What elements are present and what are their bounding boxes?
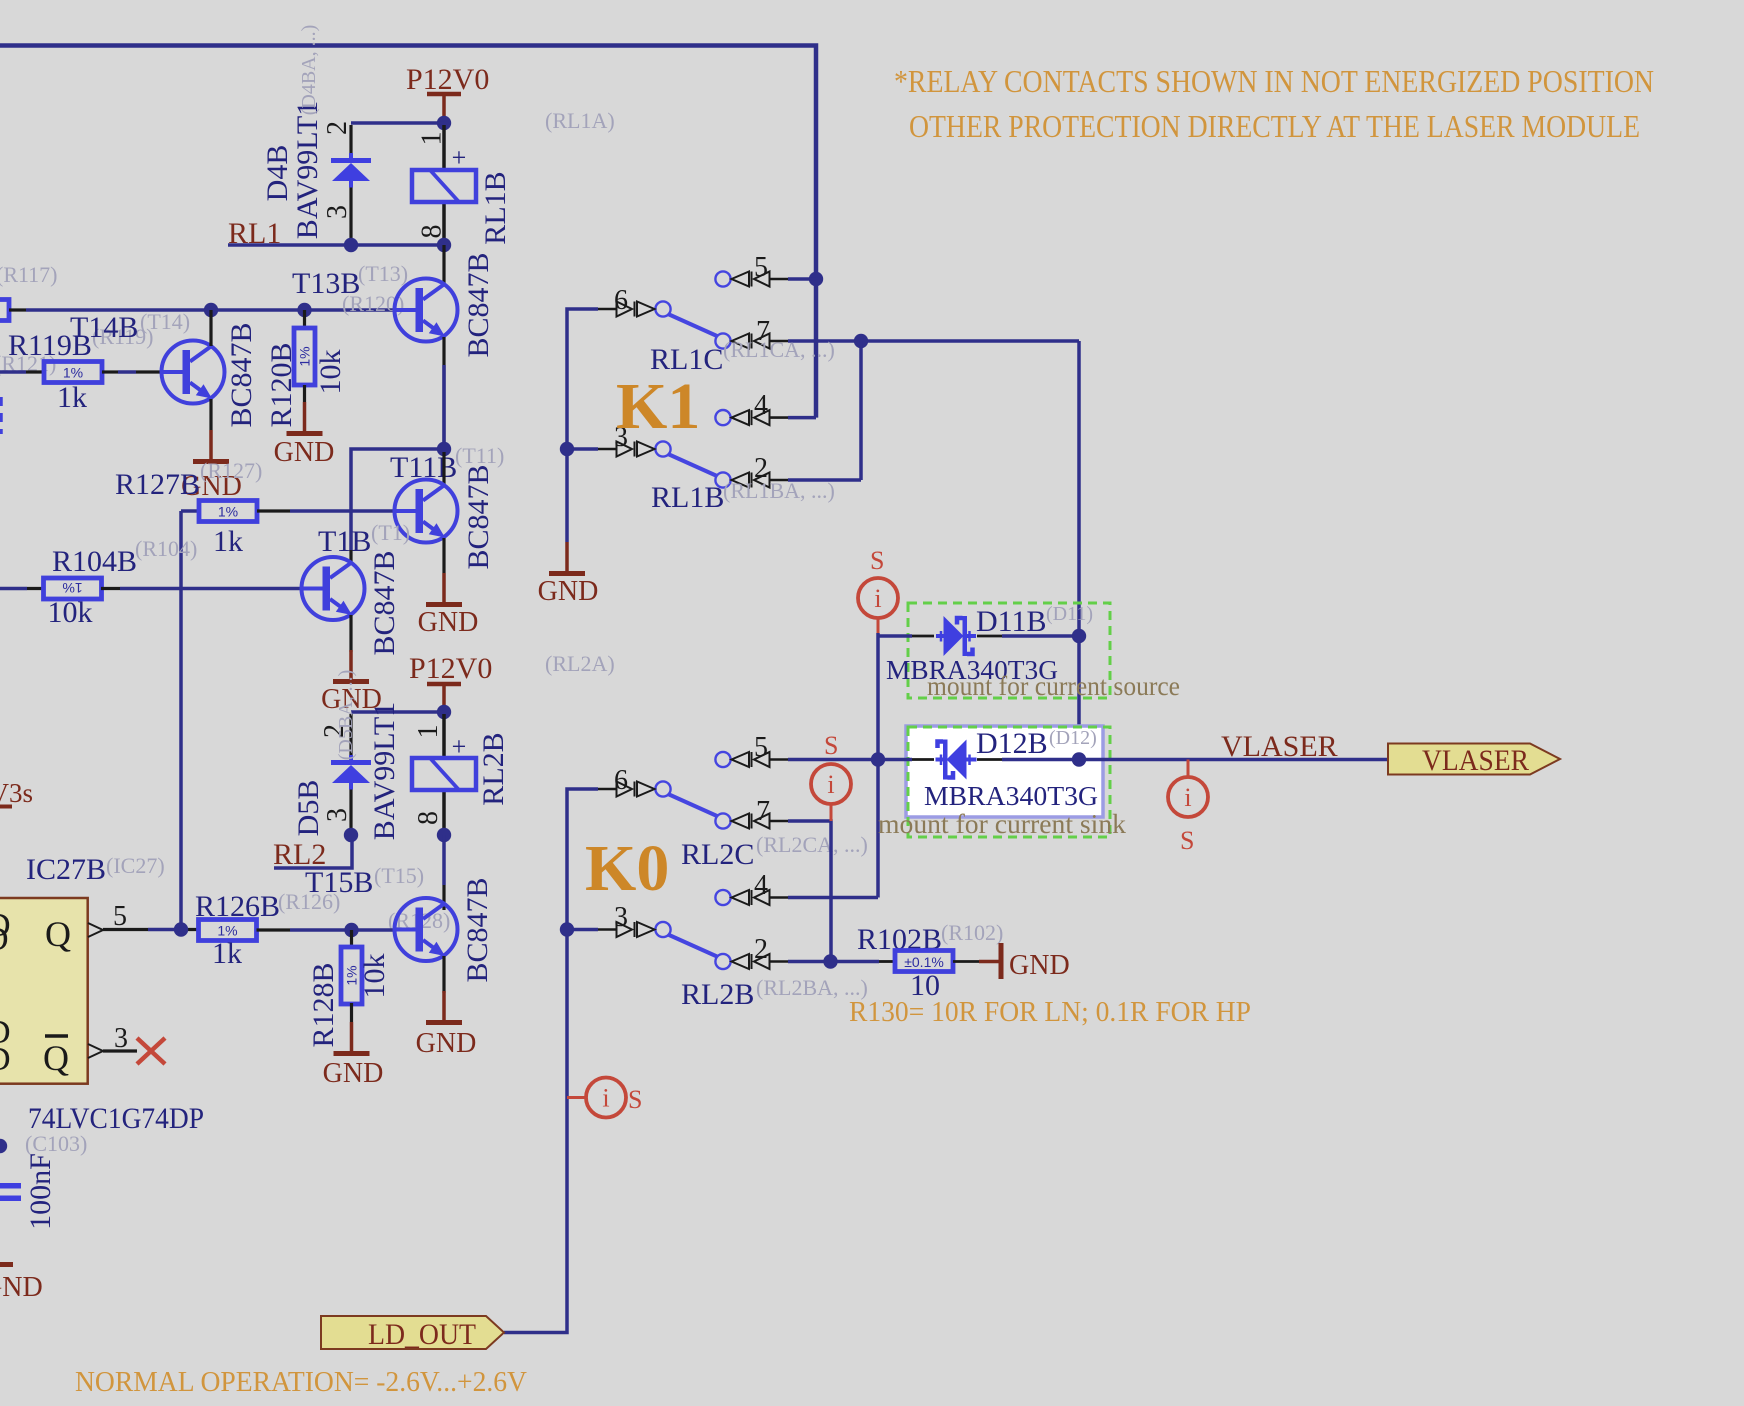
wire K1 contact3 stub <box>567 447 598 451</box>
svg-text:10k: 10k <box>314 350 347 395</box>
resistor R120B vertical <box>303 310 306 328</box>
svg-text:GND: GND <box>418 607 479 638</box>
resistor R127B <box>181 509 199 513</box>
svg-text:3: 3 <box>322 205 353 219</box>
svg-text:i: i <box>602 1084 609 1113</box>
wire T13B emitter down to junction <box>442 337 445 449</box>
resistor R126B <box>181 928 199 931</box>
svg-text:S: S <box>1180 826 1194 855</box>
svg-text:10k: 10k <box>48 596 93 629</box>
svg-text:1k: 1k <box>57 381 87 414</box>
svg-text:(R117): (R117) <box>0 262 58 287</box>
node D12B cathode / VLASER <box>1072 752 1086 766</box>
node coil pin8 / RL2 <box>437 828 451 842</box>
svg-text:S: S <box>870 546 884 575</box>
relay contact RL1B pin 3 <box>598 441 671 456</box>
svg-text:(T13): (T13) <box>358 261 408 286</box>
relay contact RL2C pin 4 <box>715 890 788 905</box>
svg-text:D12B: D12B <box>976 727 1048 760</box>
node D4B anode / RL1 <box>344 238 358 252</box>
flag LD_OUT <box>321 1316 504 1349</box>
wire contact2 K0 to R102B <box>788 960 879 964</box>
relay contact RL2C pin 7 <box>715 813 788 828</box>
relay contact RL2C pin 6 <box>598 781 671 796</box>
node R126B left / rail <box>174 922 188 936</box>
svg-text:5: 5 <box>113 901 127 932</box>
svg-text:BAV99LT1: BAV99LT1 <box>291 101 324 239</box>
svg-text:1: 1 <box>417 132 448 146</box>
wire D11/D12 feed vertical <box>1077 341 1081 760</box>
svg-text:VLASER: VLASER <box>1422 744 1529 777</box>
svg-text:100nF: 100nF <box>24 1153 57 1230</box>
svg-text:BC847B: BC847B <box>368 550 401 655</box>
ground R128B <box>334 1022 370 1054</box>
white variant box D12B <box>906 726 1103 817</box>
wire VLASER <box>1079 758 1388 762</box>
wire T13B emitter junction to T1B collector <box>351 449 444 550</box>
wire coil pin8 to T15B collector <box>442 835 446 885</box>
svg-text:P12V0: P12V0 <box>409 652 492 685</box>
relay contact RL1C pin 7 <box>715 333 788 348</box>
svg-text:D4B: D4B <box>261 145 294 202</box>
svg-text:(RL1A): (RL1A) <box>545 108 615 133</box>
wire RL2 row <box>274 835 352 868</box>
svg-text:OTHER PROTECTION DIRECTLY AT T: OTHER PROTECTION DIRECTLY AT THE LASER M… <box>909 108 1640 144</box>
ground clipped at bottom left <box>0 1262 13 1267</box>
svg-text:i: i <box>827 770 834 799</box>
svg-text:GND: GND <box>274 437 335 468</box>
node base row / R120B <box>297 303 311 317</box>
diode D12B MBRA340T3G <box>878 758 912 762</box>
resistor R128B vertical <box>350 930 353 948</box>
ground T1B emitter <box>333 650 369 682</box>
diode D4B <box>349 125 352 156</box>
transistor T14B <box>162 341 225 404</box>
node T13B emitter / T11B collector <box>437 442 451 456</box>
svg-text:2: 2 <box>754 934 768 965</box>
relay contact RL2B pin 2 <box>715 954 788 969</box>
svg-text:4: 4 <box>754 390 768 421</box>
svg-text:Q: Q <box>45 914 71 954</box>
ground R120B <box>287 402 323 434</box>
svg-text:K1: K1 <box>616 370 700 443</box>
transistor T11B <box>442 452 445 485</box>
svg-text:BC847B: BC847B <box>462 252 495 357</box>
wire contact7 K0 to R102B row <box>788 821 831 962</box>
node P12V0/RL2B <box>437 705 451 719</box>
svg-text:GND: GND <box>538 576 599 607</box>
resistor stub fragment at left edge <box>0 397 3 434</box>
svg-text:S: S <box>628 1085 642 1114</box>
svg-text:8: 8 <box>417 225 448 239</box>
svg-text:+: + <box>452 732 467 761</box>
svg-text:BAV99LT1: BAV99LT1 <box>368 702 401 840</box>
wire contact5 to vertical <box>788 277 816 281</box>
svg-text:(RL1CA, ...): (RL1CA, ...) <box>723 337 835 362</box>
svg-text:i: i <box>1184 783 1191 812</box>
relay contact RL1B lever <box>668 454 717 476</box>
wire contact4 to vertical <box>788 416 816 420</box>
svg-text:R104B: R104B <box>52 545 137 578</box>
svg-text:RL1B: RL1B <box>479 171 512 244</box>
svg-text:BC847B: BC847B <box>225 322 258 427</box>
svg-text:LD_OUT: LD_OUT <box>368 1318 476 1351</box>
svg-text:K0: K0 <box>585 832 669 905</box>
relay contact RL1C pin 6 <box>598 301 671 316</box>
wire contact7 to D11/D12 column <box>788 339 1079 343</box>
relay contact RL2B pin 3 <box>598 922 671 937</box>
node D5B anode / RL2 <box>344 828 358 842</box>
svg-text:(T11): (T11) <box>455 443 504 468</box>
ground R102B rotated <box>979 960 1001 964</box>
node junction top wire / contact 5 <box>809 272 823 286</box>
svg-text:Q: Q <box>43 1038 69 1078</box>
svg-text:7: 7 <box>756 796 770 827</box>
relay coil RL2B <box>442 714 446 758</box>
svg-text:T13B: T13B <box>292 267 360 300</box>
svg-text:(D4BA, ...): (D4BA, ...) <box>298 25 320 116</box>
svg-text:D11B: D11B <box>976 605 1047 638</box>
wire junction down to contact2 <box>859 341 863 480</box>
svg-text:(R104): (R104) <box>135 536 197 561</box>
svg-text:GND: GND <box>0 1272 43 1303</box>
ground T15B emitter <box>426 991 462 1023</box>
resistor stub at left edge (R117) <box>0 300 9 321</box>
svg-text:(C103): (C103) <box>25 1131 87 1156</box>
flag VLASER <box>1388 744 1560 775</box>
svg-text:GND: GND <box>1009 950 1070 981</box>
no-connect X on Qbar <box>137 1038 165 1064</box>
ground T14B emitter <box>193 430 229 462</box>
relay contact RL2B lever <box>668 935 717 957</box>
svg-text:RL1B: RL1B <box>651 481 724 514</box>
svg-text:(RL1BA, ...): (RL1BA, ...) <box>723 478 835 503</box>
green dashed box D11B <box>908 603 1110 698</box>
svg-text:2: 2 <box>322 121 353 135</box>
wire K0 left rail down to LD_OUT <box>504 789 598 1333</box>
svg-text:(D5BA, ...): (D5BA, ...) <box>335 670 357 761</box>
svg-text:3: 3 <box>114 1023 128 1054</box>
wire base row y=310 <box>26 308 394 312</box>
svg-text:(T1): (T1) <box>371 520 410 545</box>
wire contact4 K0 <box>788 896 878 900</box>
relay contact RL2C pin 5 <box>715 752 788 767</box>
wire R127B left rail down to R126B <box>179 511 183 930</box>
relay contact RL1C lever <box>668 314 717 336</box>
svg-text:(D11): (D11) <box>1046 603 1093 625</box>
svg-text:GND: GND <box>323 1058 384 1089</box>
node contact7 junction <box>854 334 868 348</box>
relay coil RL1B <box>442 125 446 170</box>
transistor T15B <box>442 885 445 910</box>
node K1 left rail / contact 3 <box>560 442 574 456</box>
svg-text:3: 3 <box>614 902 628 933</box>
svg-text:S: S <box>824 731 838 760</box>
svg-text:RL2B: RL2B <box>681 978 754 1011</box>
wire K1 left rail to GND <box>567 309 598 542</box>
svg-text:R130= 10R FOR LN; 0.1R FOR HP: R130= 10R FOR LN; 0.1R FOR HP <box>849 996 1251 1028</box>
wire contact5 K0 to D12B <box>788 758 878 762</box>
svg-text:P12V0: P12V0 <box>406 63 489 96</box>
current sense S LD_OUT <box>567 1096 586 1099</box>
svg-text:i: i <box>874 584 881 613</box>
wire contact2 to junction <box>788 478 861 482</box>
svg-text:*RELAY CONTACTS SHOWN IN NOT E: *RELAY CONTACTS SHOWN IN NOT ENERGIZED P… <box>894 63 1654 99</box>
diode D5B <box>349 714 352 760</box>
svg-text:IC27B: IC27B <box>26 853 106 886</box>
wire R104B to T1B base <box>120 587 301 591</box>
svg-text:mount for current source: mount for current source <box>927 671 1180 701</box>
wire RL1 row <box>228 243 444 247</box>
diode D11B MBRA340T3G <box>878 634 912 638</box>
svg-text:(R127): (R127) <box>200 458 262 483</box>
node D12B anode / K0 <box>871 752 885 766</box>
svg-text:(R102): (R102) <box>941 920 1003 945</box>
svg-text:1%: 1% <box>218 504 238 520</box>
svg-text:BC847B: BC847B <box>462 464 495 569</box>
relay contact RL1C pin 5 <box>715 271 788 286</box>
svg-text:1%: 1% <box>62 580 82 596</box>
node D11B cathode / column <box>1072 629 1086 643</box>
svg-text:mount for current sink: mount for current sink <box>878 809 1127 839</box>
svg-text:(IC27): (IC27) <box>106 853 165 878</box>
svg-text:8: 8 <box>413 811 444 825</box>
current sense S VLASER <box>1187 760 1190 779</box>
ground T11B emitter <box>426 573 462 605</box>
svg-text:T1B: T1B <box>318 525 371 558</box>
svg-text:3: 3 <box>322 808 353 822</box>
svg-text:BC847B: BC847B <box>461 877 494 982</box>
svg-text:1%: 1% <box>63 365 83 381</box>
svg-text:±0.1%: ±0.1% <box>904 954 944 970</box>
node K0 rail / contact 3 <box>560 922 574 936</box>
wire P12V0 row to D5B <box>351 710 444 714</box>
svg-text:6: 6 <box>614 765 628 796</box>
svg-text:GND: GND <box>416 1028 477 1059</box>
svg-text:4: 4 <box>754 870 768 901</box>
svg-text:(RL2CA, ...): (RL2CA, ...) <box>756 832 868 857</box>
svg-text:1%: 1% <box>297 346 313 366</box>
svg-text:10k: 10k <box>358 954 391 999</box>
node base row / T14B collector <box>204 303 218 317</box>
svg-text:+: + <box>452 143 467 172</box>
svg-text:1k: 1k <box>212 937 242 970</box>
transistor T13B <box>442 245 445 284</box>
wire K0 contact3 stub <box>567 928 598 932</box>
svg-text:R127B: R127B <box>115 468 200 501</box>
svg-text:RL2B: RL2B <box>477 732 510 805</box>
wire P12V0 row to D4B <box>351 121 444 125</box>
node P12V0/D4B <box>437 116 451 130</box>
node coil pin8 / RL1 <box>437 238 451 252</box>
svg-text:D: D <box>0 921 9 958</box>
svg-text:RL2C: RL2C <box>681 838 754 871</box>
svg-text:6: 6 <box>614 285 628 316</box>
wire top net from left edge down to K1 contact 5/4 <box>0 46 816 418</box>
green dashed box D12B <box>908 727 1110 837</box>
node R126B right / R128B <box>344 923 358 937</box>
svg-text:3V3s: 3V3s <box>0 778 33 808</box>
svg-text:NORMAL OPERATION= -2.6V...+2.6: NORMAL OPERATION= -2.6V...+2.6V <box>75 1366 527 1398</box>
svg-text:R128B: R128B <box>307 962 340 1047</box>
svg-text:(RL2A): (RL2A) <box>545 651 615 676</box>
svg-text:D5B: D5B <box>292 780 325 837</box>
svg-text:(R126): (R126) <box>278 889 340 914</box>
svg-text:(T15): (T15) <box>374 863 424 888</box>
svg-text:5: 5 <box>754 732 768 763</box>
wire D11 column vertical <box>876 633 880 898</box>
relay contact RL2C lever <box>668 794 717 816</box>
svg-text:1k: 1k <box>213 525 243 558</box>
ground K1 rail <box>549 542 585 574</box>
capacitor C103 100nF <box>0 1183 21 1189</box>
svg-text:D: D <box>0 1041 11 1078</box>
node at left edge <box>0 1139 7 1153</box>
relay contact RL1C pin 4 <box>715 410 788 425</box>
svg-text:(T14): (T14) <box>140 309 190 334</box>
svg-text:R120B: R120B <box>265 342 298 427</box>
node contact7 rail / R102B row <box>823 954 837 968</box>
relay contact RL1B pin 2 <box>715 472 788 487</box>
transistor T1B <box>349 550 352 562</box>
svg-text:(D12): (D12) <box>1049 727 1097 749</box>
svg-text:1: 1 <box>413 725 444 739</box>
svg-text:5: 5 <box>754 252 768 283</box>
svg-text:MBRA340T3G: MBRA340T3G <box>924 781 1098 811</box>
